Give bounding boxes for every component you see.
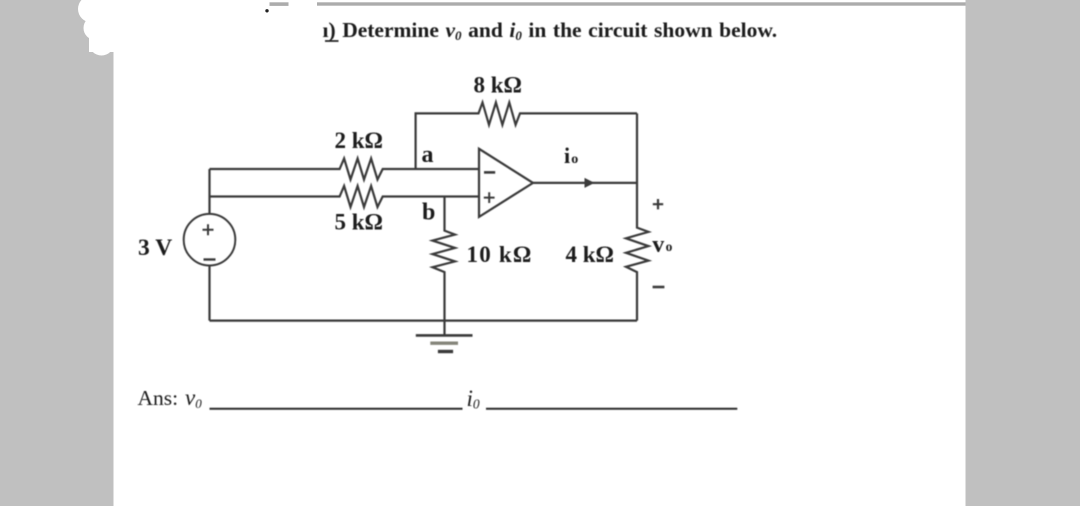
svg-text:8 kΩ: 8 kΩ: [474, 73, 522, 98]
svg-text:o: o: [571, 152, 578, 167]
svg-text:a: a: [422, 142, 434, 168]
svg-text:v: v: [652, 232, 664, 258]
svg-text:b: b: [422, 200, 435, 226]
svg-text:ı) Determine v0 and i0 in the: ı) Determine v0 and i0 in the circuit sh…: [323, 18, 778, 43]
svg-text:5 kΩ: 5 kΩ: [335, 210, 383, 235]
svg-text:4 kΩ: 4 kΩ: [566, 242, 614, 267]
svg-text:i: i: [564, 143, 570, 168]
svg-text:3 V: 3 V: [138, 235, 172, 261]
svg-text:10 kΩ: 10 kΩ: [467, 242, 533, 267]
svg-text:o: o: [666, 239, 673, 254]
svg-text:2 kΩ: 2 kΩ: [335, 128, 383, 153]
svg-text:i0: i0: [467, 386, 480, 412]
svg-text:Ans: v0: Ans: v0: [138, 385, 203, 411]
